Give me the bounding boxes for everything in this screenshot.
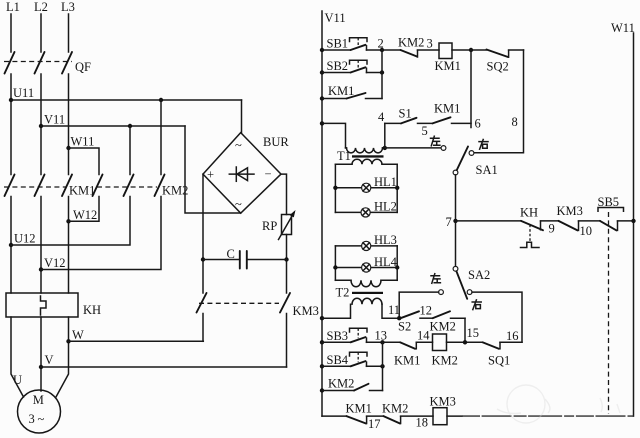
svg-text:BUR: BUR: [263, 135, 289, 149]
pushbutton SB2: [322, 59, 382, 73]
svg-text:V11: V11: [325, 11, 346, 25]
svg-text:SB4: SB4: [327, 353, 349, 367]
junction rail row4: [320, 121, 324, 125]
svg-text:SB3: SB3: [327, 329, 349, 343]
svg-text:KM1: KM1: [346, 402, 372, 416]
wire coil KM1 output: [452, 49, 471, 51]
contactor KM3 poles: [197, 293, 319, 318]
svg-text:15: 15: [467, 326, 480, 340]
wire KM2 pole6 to V12: [41, 197, 161, 270]
potentiometer RP: [262, 210, 296, 240]
wire U11 bus: [11, 99, 242, 101]
svg-text:6: 6: [475, 117, 481, 131]
wire KM1 pole3 to KH: [68, 197, 70, 294]
node W12: [66, 208, 97, 224]
svg-text:KM1: KM1: [434, 102, 460, 116]
coil KM1: [435, 43, 461, 73]
wire rectifier plus output: [202, 174, 204, 293]
label left SA1: [431, 136, 440, 146]
terminal L3: [61, 0, 75, 52]
junction at capacitor right: [284, 257, 288, 261]
capacitor C: [203, 247, 287, 269]
wire SA2 left to node 11: [399, 292, 438, 318]
terminal L2: [34, 0, 48, 52]
svg-text:U12: U12: [14, 232, 36, 246]
wire V11 branch to KM2 pole: [129, 126, 131, 175]
svg-text:SA2: SA2: [468, 268, 490, 282]
svg-text:KM2: KM2: [430, 320, 456, 334]
wire U11 branch to KM2 pole: [160, 100, 162, 175]
svg-text:S2: S2: [398, 320, 411, 334]
watermark remnant: [497, 385, 620, 423]
svg-text:W11: W11: [611, 21, 635, 35]
wire motor lead V: [40, 317, 42, 391]
svg-text:~: ~: [38, 412, 45, 426]
svg-text:18: 18: [416, 416, 429, 430]
control rail V11: [322, 11, 346, 416]
contactor KM2 main poles: [93, 175, 189, 198]
wire node4 to SA1 left: [385, 147, 441, 149]
transformer T1: [335, 148, 397, 164]
svg-text:U11: U11: [13, 86, 34, 100]
svg-text:L2: L2: [34, 0, 48, 14]
node V: [39, 353, 54, 369]
node 13: [375, 329, 388, 345]
svg-text:~: ~: [235, 138, 242, 152]
wire node2 vertical: [381, 50, 383, 99]
wire node 8 SQ2 to SA1 right: [474, 50, 524, 153]
lamp loop T1 secondary: [333, 164, 399, 212]
svg-text:14: 14: [417, 329, 430, 343]
wire KM2 pole4 to W12: [69, 197, 100, 222]
label right SA2: [472, 300, 481, 310]
selector switch SA1: [441, 146, 498, 177]
label right SA1: [479, 140, 488, 150]
wire rail bottom row: [322, 415, 347, 417]
wire phase2 QF to KM1 pole: [40, 74, 42, 175]
svg-text:SA1: SA1: [476, 163, 498, 177]
lamp HL4: [362, 255, 398, 272]
svg-text:L3: L3: [61, 0, 75, 14]
svg-text:W: W: [72, 328, 84, 342]
junction node13 SB4: [380, 364, 384, 368]
svg-text:7: 7: [446, 215, 452, 229]
svg-text:KH: KH: [83, 303, 101, 317]
selector switch SA2: [439, 266, 491, 298]
svg-text:KM1: KM1: [328, 84, 354, 98]
svg-text:QF: QF: [75, 60, 91, 74]
svg-text:SQ1: SQ1: [488, 354, 510, 368]
wire RP to KM3 pole: [286, 235, 288, 294]
junction rail SB4 row: [320, 364, 324, 368]
svg-text:L1: L1: [6, 0, 20, 14]
svg-text:3: 3: [29, 412, 35, 426]
node U12: [9, 232, 36, 248]
wire node 15 vertical: [464, 318, 466, 342]
node V12: [39, 256, 66, 272]
svg-text:13: 13: [375, 329, 388, 343]
svg-text:−: −: [265, 167, 272, 181]
svg-text:KM3: KM3: [293, 304, 319, 318]
svg-text:KM3: KM3: [430, 395, 456, 409]
wire V11 to rectifier bottom: [185, 126, 241, 213]
svg-text:10: 10: [580, 224, 593, 238]
pushbutton SB5: [598, 195, 634, 230]
svg-text:2: 2: [378, 37, 384, 51]
node V11: [39, 113, 65, 129]
svg-text:4: 4: [378, 110, 385, 124]
svg-text:17: 17: [368, 417, 381, 431]
wire node13 vertical: [382, 342, 384, 390]
svg-text:C: C: [227, 247, 235, 261]
node W11: [66, 135, 94, 151]
contact KM2 self-holding: [322, 377, 383, 391]
junction rail SB1 row: [320, 48, 324, 52]
svg-text:M: M: [33, 393, 44, 407]
wire KM2 coil to SQ1: [447, 341, 483, 343]
control rail W11: [611, 21, 635, 416]
svg-text:KM2: KM2: [398, 36, 424, 50]
wire KM1 pole1 to KH: [10, 197, 12, 294]
switch S1: [385, 107, 433, 139]
wire KM2 pole5 to U12: [11, 197, 130, 246]
pushbutton SB3: [322, 328, 383, 343]
svg-text:KM2: KM2: [382, 402, 408, 416]
contact KM1 row13: [383, 329, 433, 368]
svg-text:V: V: [45, 353, 54, 367]
lamp HL1: [362, 175, 397, 192]
svg-text:+: +: [207, 168, 214, 182]
wire rectifier minus output: [281, 174, 287, 214]
node 7: [446, 215, 458, 229]
svg-text:S1: S1: [399, 107, 412, 121]
svg-text:5: 5: [422, 124, 428, 138]
svg-text:8: 8: [512, 115, 518, 129]
junction W11 rail KH row: [631, 219, 635, 223]
label left SA2: [431, 274, 440, 284]
thermal contact KH: [520, 206, 543, 248]
node 2: [378, 37, 385, 53]
svg-text:9: 9: [549, 222, 555, 236]
wire W11 to KM2 pole: [69, 148, 100, 175]
node 15: [463, 326, 479, 344]
wire rail to T1 primary: [322, 123, 346, 147]
junction at capacitor left: [201, 257, 205, 261]
svg-text:KM2: KM2: [328, 377, 354, 391]
svg-text:T1: T1: [337, 149, 351, 163]
junction on U11 bus: [159, 98, 163, 102]
wire phase1 QF to KM1 pole: [10, 74, 12, 175]
wire motor lead W: [56, 317, 69, 397]
contact KM2 row11: [430, 311, 466, 333]
svg-text:HL2: HL2: [374, 200, 397, 214]
junction node coil/SQ2: [469, 48, 473, 52]
thermal relay KH: [6, 293, 101, 317]
wire motor lead U: [11, 317, 24, 397]
svg-text:RP: RP: [262, 219, 277, 233]
wire KM3 pole right to V: [286, 314, 288, 368]
junction node2 SB2: [380, 70, 384, 74]
junction on V11 bus: [128, 124, 132, 128]
node W: [66, 328, 84, 343]
svg-text:SB1: SB1: [327, 37, 349, 51]
svg-text:U: U: [13, 373, 22, 387]
svg-text:12: 12: [420, 304, 433, 318]
pushbutton SB4: [322, 352, 383, 367]
wire KM3 pole left to W: [202, 314, 204, 342]
lamp loop T2 secondary: [333, 246, 399, 280]
coil KM2: [432, 334, 458, 368]
switch S2: [398, 304, 433, 334]
junction rail SB2 row: [320, 70, 324, 74]
transformer T2: [335, 280, 399, 318]
contact KM2 NC interlock: [382, 36, 439, 58]
svg-text:~: ~: [235, 197, 242, 211]
wire V to KM3 pole: [41, 366, 287, 368]
svg-text:HL1: HL1: [374, 175, 397, 189]
svg-text:SB2: SB2: [327, 59, 349, 73]
svg-text:KM1: KM1: [435, 59, 461, 73]
wire U11 to rectifier top: [241, 100, 243, 133]
svg-text:KM3: KM3: [557, 204, 583, 218]
bridge rectifier BUR: [203, 133, 289, 214]
svg-text:KM1: KM1: [69, 184, 95, 198]
svg-text:3: 3: [427, 37, 433, 51]
junction rail SB3 row: [320, 340, 324, 344]
coil KM3: [430, 395, 456, 425]
circuit breaker QF: [4, 52, 91, 74]
wire node7 row: [456, 220, 522, 222]
terminal L1: [6, 0, 20, 52]
wire W to KM3 pole: [69, 340, 204, 342]
svg-text:KM2: KM2: [432, 354, 458, 368]
svg-text:V12: V12: [44, 256, 66, 270]
pushbutton SB1: [322, 37, 382, 51]
lamp HL3: [362, 233, 397, 250]
wire SA1 common to node 7: [455, 175, 457, 267]
wire node 6 vertical: [471, 50, 481, 131]
limit switch SQ1: [483, 329, 523, 368]
svg-text:KH: KH: [520, 206, 538, 220]
wire V11 bus: [41, 125, 185, 127]
node 4: [378, 110, 387, 150]
svg-text:HL4: HL4: [374, 255, 398, 269]
limit switch SQ2: [471, 50, 524, 74]
svg-text:W12: W12: [73, 208, 97, 222]
contactor KM1 main poles: [4, 175, 95, 198]
linkage SB5 dashed: [608, 212, 610, 414]
motor M: [18, 390, 61, 433]
svg-text:KM1: KM1: [394, 354, 420, 368]
junction rail KM1 row: [320, 96, 324, 100]
node U11: [9, 86, 34, 102]
contact KM1 row4: [433, 102, 472, 124]
contact KM1 self-holding: [322, 84, 382, 99]
svg-text:16: 16: [506, 329, 519, 343]
lamp HL2: [361, 200, 397, 217]
wire KM1 pole2 to KH: [40, 197, 42, 294]
contact KM2 bottom: [382, 402, 433, 430]
junction rail T2 row: [320, 316, 324, 320]
wire rail to T2 primary: [322, 304, 351, 318]
svg-text:T2: T2: [336, 286, 350, 300]
node 11: [388, 303, 401, 320]
svg-text:HL3: HL3: [374, 233, 397, 247]
svg-text:SQ2: SQ2: [487, 60, 509, 74]
wire phase3 QF to KM1 pole: [68, 74, 70, 175]
contact KM3 NO: [557, 204, 601, 238]
contact KM1 bottom: [346, 402, 384, 432]
wire bottom row to W11 rail: [447, 415, 462, 417]
svg-text:W11: W11: [71, 135, 95, 149]
svg-text:11: 11: [388, 303, 400, 317]
svg-text:V11: V11: [44, 113, 65, 127]
junction rail KM2 row: [320, 388, 324, 392]
wire SA2 right to node 16: [472, 292, 522, 342]
svg-text:KM2: KM2: [162, 184, 188, 198]
wire KH to KM3 contact: [541, 221, 559, 236]
